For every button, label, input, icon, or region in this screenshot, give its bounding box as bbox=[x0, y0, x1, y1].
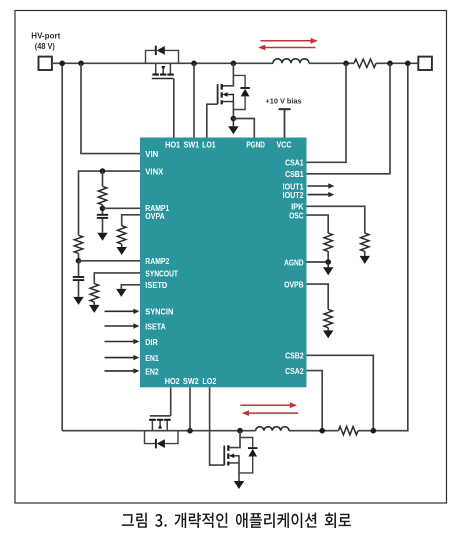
svg-text:SW1: SW1 bbox=[184, 141, 200, 150]
arrow input EN2 bbox=[105, 370, 135, 372]
ground C-RAMP2 bbox=[73, 297, 83, 305]
wire OVPB branch bbox=[307, 284, 329, 309]
wire IPK branch bbox=[307, 206, 365, 233]
resistor R-RAMP2 (left divider) bbox=[74, 235, 82, 253]
svg-text:HO2: HO2 bbox=[165, 377, 180, 386]
transistor Q3 (high-side, phase 2) bbox=[150, 415, 171, 417]
svg-text:EN2: EN2 bbox=[145, 367, 159, 376]
capacitor C-RAMP1 bbox=[97, 214, 108, 216]
junction Q2 source node bbox=[231, 116, 237, 122]
arrow output IOUT1 bbox=[308, 185, 329, 187]
svg-text:IPK: IPK bbox=[291, 203, 304, 212]
junction CSA1 sense node bbox=[343, 61, 349, 67]
wire C-RAMP1 bottom lead bbox=[102, 218, 104, 232]
wire ISETD branch bbox=[121, 285, 140, 289]
svg-text:CSA1: CSA1 bbox=[285, 159, 304, 168]
ground C-RAMP1 bbox=[97, 233, 107, 241]
junction top rail at left rail bbox=[59, 61, 65, 67]
svg-text:PGND: PGND bbox=[246, 141, 265, 150]
junction Q4 drain node bbox=[237, 428, 243, 434]
junction CSB1 sense node bbox=[387, 61, 393, 67]
caption: 그림 3. 개략적인 애플리케이션 회로 bbox=[122, 513, 351, 528]
wire SW2 lead bbox=[189, 387, 191, 430]
ground R-SYNCOUT bbox=[93, 302, 95, 305]
red arrow current flow bottom (leftwards) bbox=[248, 412, 298, 414]
diode D2 (Q2 body diode) bbox=[240, 87, 249, 89]
svg-text:AGND: AGND bbox=[284, 258, 304, 267]
transistor Q2 (sync rectifier, phase 1) bbox=[217, 84, 219, 104]
svg-text:ISETD: ISETD bbox=[145, 281, 167, 290]
svg-text:DIR: DIR bbox=[145, 338, 158, 347]
wire Q2 drain from rail bbox=[222, 63, 233, 86]
svg-text:VIN: VIN bbox=[145, 150, 158, 159]
resistor R-OVPB bbox=[324, 309, 332, 327]
wire SW1 lead bbox=[193, 63, 195, 137]
junction Q2 drain node bbox=[231, 61, 237, 67]
svg-text:HO1: HO1 bbox=[165, 141, 180, 150]
ground R-OVPB bbox=[327, 328, 329, 331]
svg-text:RAMP2: RAMP2 bbox=[145, 257, 169, 266]
wire SYNCOUT branch bbox=[94, 273, 140, 284]
junction RAMP1 node bbox=[100, 206, 106, 212]
resistor R-IPK bbox=[361, 233, 369, 251]
resistor R-sense2 (bottom) bbox=[339, 427, 359, 435]
diode D4 (Q4 body diode) bbox=[248, 447, 257, 449]
arrow output IOUT2 bbox=[308, 194, 329, 196]
wire CSA1 branch bbox=[307, 63, 347, 162]
junction CSA2 node bbox=[319, 428, 325, 434]
wire VINX branch bbox=[79, 171, 141, 235]
svg-text:(48 V): (48 V) bbox=[35, 41, 55, 51]
wire R-OSC lower lead bbox=[327, 251, 329, 262]
wire C-RAMP2 bottom lead bbox=[78, 281, 80, 297]
IC U1 pin labels bbox=[145, 141, 304, 387]
wire CSA2 branch bbox=[307, 371, 323, 431]
wire R-RAMP2 lower lead bbox=[78, 253, 80, 260]
svg-text:OVPB: OVPB bbox=[284, 280, 304, 289]
port HV-port (48 V) bbox=[39, 57, 52, 70]
svg-text:ISETA: ISETA bbox=[145, 322, 166, 331]
transistor Q3 body diode loop bbox=[145, 431, 156, 444]
arrow input SYNCIN bbox=[105, 310, 135, 312]
arrow input DIR bbox=[105, 341, 135, 343]
junction SW1 node bbox=[191, 61, 197, 67]
ground Q4 source bbox=[234, 481, 244, 489]
transistor Q1 body diode loop bbox=[146, 50, 156, 63]
wire AGND to node bbox=[307, 261, 329, 263]
wire Q2 source to node bbox=[232, 102, 234, 119]
wire left vertical rail bbox=[61, 63, 63, 430]
red arrow current flow top (rightwards) bbox=[261, 40, 312, 42]
wire Q4 source lead bbox=[238, 463, 240, 481]
svg-text:+10 V bias: +10 V bias bbox=[266, 96, 302, 105]
junction RAMP2 node bbox=[76, 258, 82, 264]
junction top rail at VIN branch bbox=[78, 61, 84, 67]
svg-text:LO1: LO1 bbox=[202, 141, 216, 150]
resistor R-sense1 (top) bbox=[354, 59, 376, 67]
supply stub +10V bias bbox=[279, 108, 291, 110]
ground ISETD bbox=[116, 289, 126, 297]
wire bottom rail mid section bbox=[289, 430, 339, 432]
red arrow current flow bottom (rightwards) bbox=[240, 404, 290, 406]
port output (right) bbox=[418, 57, 432, 70]
junction SW2 node bbox=[187, 428, 193, 434]
ground AGND bbox=[327, 262, 329, 267]
ground R-IPK bbox=[364, 251, 366, 256]
junction CSB2 node bbox=[371, 428, 377, 434]
resistor R-SYNCOUT bbox=[90, 284, 98, 302]
svg-text:OVPA: OVPA bbox=[145, 212, 165, 221]
svg-text:SYNCIN: SYNCIN bbox=[145, 308, 173, 317]
wire bottom rail right section + right vertical rail bbox=[358, 63, 408, 430]
capacitor C-RAMP2 bbox=[73, 276, 84, 278]
junction AGND node bbox=[325, 259, 331, 265]
wire Q4 body-diode branch bbox=[240, 438, 253, 449]
inductor L1 (top) bbox=[273, 59, 309, 64]
wire CSB2 branch bbox=[307, 355, 374, 430]
wire VCC lead bbox=[284, 109, 286, 137]
wire bottom rail left section bbox=[62, 430, 255, 432]
wire HO2 gate lead bbox=[170, 387, 172, 416]
svg-text:LO2: LO2 bbox=[202, 377, 216, 386]
wire HO1 gate lead bbox=[173, 79, 175, 138]
red arrow current flow top (leftwards) bbox=[264, 47, 315, 49]
wire top rail resistor-to-port bbox=[376, 62, 418, 64]
transistor Q4 (sync rectifier, phase 2) bbox=[223, 446, 225, 466]
wire PGND lead bbox=[233, 119, 254, 138]
arrow input ISETA bbox=[105, 325, 135, 327]
wire LO1 gate lead bbox=[207, 104, 218, 137]
wire Q4 drain from rail bbox=[229, 431, 240, 448]
svg-text:EN1: EN1 bbox=[145, 354, 159, 363]
ground Q2 source bbox=[232, 119, 234, 127]
arrow input EN1 bbox=[105, 357, 135, 359]
resistor R-OSC bbox=[324, 233, 332, 251]
wire Q2 body-diode branch bbox=[233, 75, 245, 88]
resistor R-RAMP1 upper divider bbox=[98, 186, 106, 204]
wire OSC branch bbox=[307, 215, 329, 233]
ground R-OVPA bbox=[121, 244, 123, 247]
wire C-RAMP2 top lead bbox=[78, 261, 80, 277]
wire OVPA branch bbox=[122, 215, 140, 226]
svg-text:SYNCOUT: SYNCOUT bbox=[145, 269, 178, 278]
resistor R-OVPA bbox=[118, 226, 126, 244]
wire RAMP1 to IC bbox=[103, 207, 141, 209]
svg-text:CSA2: CSA2 bbox=[285, 367, 304, 376]
wire divider upper lead bbox=[102, 171, 104, 186]
wire top HV rail bbox=[52, 62, 273, 64]
svg-text:VINX: VINX bbox=[145, 167, 163, 176]
svg-text:HV-port: HV-port bbox=[31, 31, 60, 41]
svg-text:CSB1: CSB1 bbox=[285, 170, 304, 179]
wire VIN branch bbox=[81, 63, 140, 153]
transistor Q1 (high-side, phase 1) bbox=[155, 63, 157, 73]
svg-text:CSB2: CSB2 bbox=[285, 352, 304, 361]
inductor L2 (bottom) bbox=[256, 427, 289, 431]
junction VINX divider top bbox=[100, 168, 106, 174]
diode D1 (Q1 body diode) bbox=[155, 46, 157, 55]
diode D3 (Q3 body diode) bbox=[155, 439, 157, 448]
svg-text:SW2: SW2 bbox=[183, 377, 199, 386]
wire RAMP2 to IC bbox=[79, 260, 141, 262]
IC U1 LM5137 controller body bbox=[140, 138, 307, 388]
svg-text:IOUT2: IOUT2 bbox=[283, 191, 304, 200]
svg-text:VCC: VCC bbox=[277, 141, 292, 150]
wire LO2 gate lead bbox=[210, 387, 225, 465]
wire divider mid lead bbox=[102, 205, 104, 215]
wire top rail inductor-to-resistor bbox=[309, 62, 354, 64]
junction output port node bbox=[405, 61, 411, 67]
svg-text:OSC: OSC bbox=[289, 211, 304, 220]
wire CSB1 branch bbox=[307, 63, 391, 174]
